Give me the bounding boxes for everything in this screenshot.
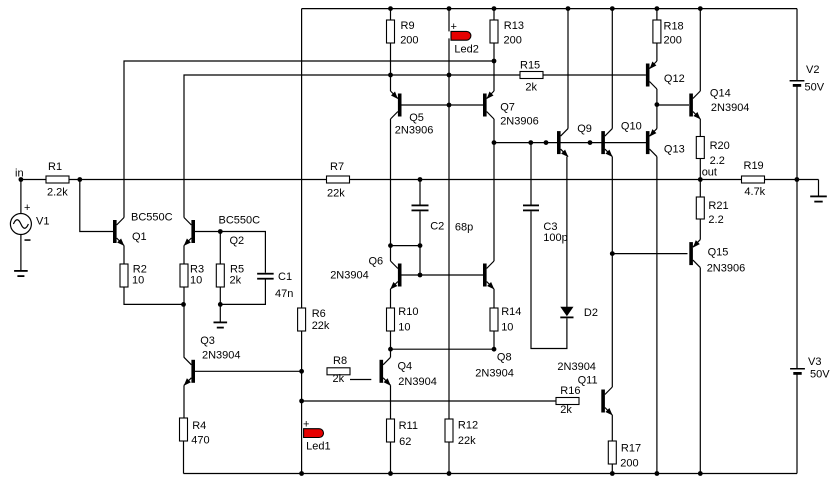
svg-text:+: + xyxy=(451,21,457,33)
resistor R21 2.2 xyxy=(696,197,728,226)
wire Q15 base line xyxy=(612,253,687,255)
wire main in-out line xyxy=(21,179,819,181)
svg-text:R17: R17 xyxy=(621,443,641,455)
resistor R13 200 xyxy=(490,20,524,46)
transistor Q11 2N3904 xyxy=(557,361,612,415)
transistor Q1 BC550C xyxy=(113,212,173,246)
junction bottom rail Led1 xyxy=(299,471,304,476)
svg-text:2k: 2k xyxy=(333,373,345,385)
junction line B Q5 emitter xyxy=(388,73,393,78)
transistor Q12 xyxy=(646,61,685,89)
wire main line to C2 xyxy=(419,180,421,205)
wire in node to V1 xyxy=(20,180,22,214)
svg-text:Q11: Q11 xyxy=(578,375,598,387)
junction Q6/Q8 base C2 xyxy=(418,273,423,278)
svg-text:10: 10 xyxy=(398,321,410,333)
svg-text:R4: R4 xyxy=(192,420,206,432)
wire R21 to Q15 emitter xyxy=(699,219,701,240)
junction line B Led2 xyxy=(447,73,452,78)
transistor Q4 2N3904 xyxy=(380,357,437,388)
transistor Q8 2N3904 xyxy=(475,261,514,380)
transistor Q14 2N3904 xyxy=(689,88,749,120)
wire Q2 emitter to R3 xyxy=(183,246,185,265)
svg-text:V3: V3 xyxy=(808,356,821,368)
svg-text:R6: R6 xyxy=(312,308,326,320)
wire R17 to bottom rail xyxy=(611,464,613,474)
svg-text:R9: R9 xyxy=(401,20,415,32)
svg-text:V1: V1 xyxy=(36,216,49,228)
svg-text:4.7k: 4.7k xyxy=(744,186,765,198)
svg-text:2N3906: 2N3906 xyxy=(395,125,434,137)
wire R20 to out xyxy=(699,159,701,180)
battery V3 50V xyxy=(790,356,830,381)
junction R10 bottom node xyxy=(388,347,393,352)
transistor Q7 2N3906 xyxy=(483,91,539,128)
junction bottom rail R17 xyxy=(610,471,615,476)
wire R10 to Q4 collector xyxy=(390,331,392,357)
wire Q12 collector to Q13 emitter xyxy=(656,89,658,129)
junction top rail Led2 xyxy=(447,6,452,11)
junction Q2 base node xyxy=(218,229,223,234)
wire top rail down through R6 and Led1 xyxy=(301,9,303,474)
svg-text:+: + xyxy=(24,202,30,214)
wire right ground drop xyxy=(818,180,820,196)
svg-text:50V: 50V xyxy=(805,82,825,94)
wire out to R21 xyxy=(699,180,701,198)
wire Q6 base to Q8 base xyxy=(401,274,483,276)
wire Q8 emitter to R14 xyxy=(493,289,495,308)
wire Q9 emitter to D2 anode xyxy=(566,157,568,307)
junction Q9 base pin xyxy=(544,140,549,145)
junction Q12 collector node xyxy=(655,102,660,107)
svg-text:R14: R14 xyxy=(501,306,521,318)
wire line A (Q1 collector to Q7 emitter) xyxy=(124,61,494,218)
junction bottom rail Q15 xyxy=(698,471,703,476)
svg-text:2N3904: 2N3904 xyxy=(330,270,369,282)
capacitor C3 100p xyxy=(523,205,568,244)
battery V2 50V xyxy=(790,64,825,94)
wire Q9 collector to top rail xyxy=(567,9,569,129)
svg-text:Led1: Led1 xyxy=(306,441,330,453)
junction R1/Q1 base xyxy=(77,177,82,182)
wire V3 to bottom rail xyxy=(796,374,798,474)
transistor Q9 xyxy=(557,123,592,157)
svg-text:R16: R16 xyxy=(560,385,580,397)
svg-text:2.2: 2.2 xyxy=(710,155,725,167)
resistor R9 200 xyxy=(387,20,419,46)
svg-text:10: 10 xyxy=(501,321,513,333)
wire R4 to bottom rail xyxy=(183,441,185,474)
wire Q10 collector to top rail xyxy=(611,9,613,129)
resistor R19 4.7k xyxy=(742,160,766,198)
wire Q4 emitter to R11 xyxy=(390,385,392,419)
svg-text:C2: C2 xyxy=(430,221,444,233)
wire R5 top xyxy=(219,232,221,265)
junction C2 bottom node xyxy=(418,243,423,248)
junction bias line C3 xyxy=(528,140,533,145)
svg-text:R21: R21 xyxy=(708,200,728,212)
svg-text:R12: R12 xyxy=(458,419,478,431)
svg-text:C1: C1 xyxy=(278,271,292,283)
junction R2/R3 node xyxy=(181,302,186,307)
svg-text:Q3: Q3 xyxy=(200,335,215,347)
wire Q14 collector to top rail xyxy=(699,9,701,91)
svg-text:Q7: Q7 xyxy=(500,102,515,114)
svg-text:Q8: Q8 xyxy=(497,352,512,364)
svg-text:R1: R1 xyxy=(48,161,62,173)
svg-text:22k: 22k xyxy=(312,320,330,332)
wire top rail to Led2 xyxy=(448,9,450,32)
LED Led1 xyxy=(303,419,331,453)
wire Q7 collector to Q13 base xyxy=(494,142,646,144)
junction R5/C1 ground node xyxy=(218,302,223,307)
wire R8 to Q4 base xyxy=(350,379,371,381)
svg-text:Q6: Q6 xyxy=(369,255,384,267)
junction R6/R16 line node xyxy=(299,399,304,404)
junction line A Q7 emitter xyxy=(492,59,497,64)
svg-text:Q2: Q2 xyxy=(230,235,245,247)
ground right output xyxy=(810,196,827,203)
resistor R17 200 xyxy=(608,441,641,469)
wire R12 to bottom rail xyxy=(448,442,450,474)
ground V1 xyxy=(14,270,28,277)
svg-text:10: 10 xyxy=(132,275,144,287)
resistor R16 2k xyxy=(556,385,580,416)
svg-text:2N3906: 2N3906 xyxy=(707,263,746,275)
ground R5 node xyxy=(214,322,228,329)
wire R10-R14 link xyxy=(391,348,495,350)
resistor R12 22k xyxy=(445,419,478,447)
wire R13 to Q7 emitter xyxy=(493,43,495,91)
junction bottom rail R12 xyxy=(447,471,452,476)
wire Q15 collector to bottom rail xyxy=(699,268,701,474)
svg-text:R19: R19 xyxy=(744,160,764,172)
junction main line C2 xyxy=(418,177,423,182)
svg-text:Q9: Q9 xyxy=(577,123,592,135)
wire Q2 base to R5/C1 xyxy=(195,232,265,273)
svg-text:Q13: Q13 xyxy=(664,144,685,156)
wire C3 top xyxy=(530,143,532,205)
junction bottom rail R11 xyxy=(388,471,393,476)
capacitor C2 68p xyxy=(412,205,474,234)
resistor R11 62 xyxy=(387,419,418,448)
junction Q6 collector node xyxy=(388,243,393,248)
wire bottom supply rail xyxy=(184,473,798,475)
wire R14 to R10 link node xyxy=(493,331,495,349)
junction bias line Q7 collector xyxy=(492,140,497,145)
svg-text:100p: 100p xyxy=(543,232,567,244)
junction bottom rail Q13 xyxy=(655,471,660,476)
svg-text:Q4: Q4 xyxy=(398,360,413,372)
wire Q10 emitter down to Q11 collector xyxy=(611,157,613,387)
wire R9 top stub xyxy=(390,9,392,20)
wire C1 bottom to R5 node xyxy=(220,279,265,304)
svg-text:R11: R11 xyxy=(399,420,418,432)
wire Q14 emitter to R20 xyxy=(699,119,701,137)
junction top rail R13 xyxy=(492,6,497,11)
junction Q10 base pin xyxy=(588,140,593,145)
svg-text:2k: 2k xyxy=(230,275,242,287)
svg-text:200: 200 xyxy=(664,35,682,47)
svg-text:22k: 22k xyxy=(458,435,476,447)
svg-text:68p: 68p xyxy=(455,222,473,234)
AC source V1 xyxy=(10,202,49,241)
svg-text:Q5: Q5 xyxy=(409,112,424,124)
svg-text:V2: V2 xyxy=(806,64,819,76)
transistor Q10 xyxy=(601,121,641,158)
wire R9 to Q5 emitter xyxy=(390,43,392,91)
svg-text:2N3904: 2N3904 xyxy=(475,368,514,380)
svg-text:10: 10 xyxy=(190,275,202,287)
svg-text:Q12: Q12 xyxy=(664,73,685,85)
resistor R2 10 xyxy=(120,263,147,287)
transistor Q15 2N3906 xyxy=(689,240,745,275)
junction main line V-rail xyxy=(795,177,800,182)
resistor R1 2.2k xyxy=(46,161,69,199)
junction top rail Q9 xyxy=(566,6,571,11)
svg-text:2k: 2k xyxy=(560,404,572,416)
resistor R8 2k xyxy=(327,355,350,385)
svg-text:Q1: Q1 xyxy=(132,231,147,243)
junction top rail R18 xyxy=(655,6,660,11)
svg-text:50V: 50V xyxy=(810,369,830,381)
node label out xyxy=(702,167,717,179)
wire V1 to ground xyxy=(20,235,22,271)
transistor Q6 2N3904 xyxy=(330,255,401,289)
capacitor C1 47n xyxy=(257,271,293,300)
svg-text:R20: R20 xyxy=(710,140,730,152)
svg-text:2.2k: 2.2k xyxy=(47,187,68,199)
wire C2 to Q6/Q8 node xyxy=(419,211,421,275)
svg-text:62: 62 xyxy=(399,436,411,448)
junction top rail Q10 xyxy=(610,6,615,11)
svg-text:in: in xyxy=(15,168,24,180)
wire Q6 emitter to R10 xyxy=(390,289,392,308)
resistor R6 22k xyxy=(298,308,330,332)
svg-text:470: 470 xyxy=(191,435,209,447)
junction Q5/Q7 base node xyxy=(447,103,452,108)
svg-text:Led2: Led2 xyxy=(454,43,478,55)
wire R5 bottom to ground xyxy=(219,287,221,322)
svg-text:BC550C: BC550C xyxy=(131,212,173,224)
resistor R7 22k xyxy=(327,161,350,200)
resistor R14 10 xyxy=(490,306,521,333)
junction Q3 base R6 node xyxy=(299,369,304,374)
svg-text:2N3904: 2N3904 xyxy=(202,350,241,362)
junction R14 bottom node xyxy=(492,347,497,352)
svg-text:R13: R13 xyxy=(504,20,524,32)
junction Q15 base node xyxy=(610,251,615,256)
wire R1 to Q1 base xyxy=(80,180,113,232)
svg-text:R3: R3 xyxy=(190,263,204,275)
diode D2 xyxy=(560,307,598,319)
wire Q3 base to R8 node xyxy=(195,370,302,372)
svg-text:BC550C: BC550C xyxy=(219,215,261,227)
wire R18 top stub xyxy=(656,9,658,20)
node label in xyxy=(15,168,24,180)
junction top rail Q14 xyxy=(698,6,703,11)
wire Q3 emitter to R4 xyxy=(183,385,185,418)
svg-text:Q15: Q15 xyxy=(708,247,729,259)
wire Q11 emitter to R17 xyxy=(611,415,613,441)
transistor Q2 BC550C xyxy=(184,215,260,248)
resistor R20 2.2 xyxy=(696,137,729,168)
junction in node xyxy=(19,177,24,182)
wire Q5 collector down to Q6 collector xyxy=(390,119,392,261)
svg-text:2N3904: 2N3904 xyxy=(711,102,750,114)
transistor Q13 xyxy=(646,129,685,157)
wire V2 to V3 xyxy=(796,86,798,369)
svg-text:2.2: 2.2 xyxy=(708,214,723,226)
svg-text:R7: R7 xyxy=(330,161,344,173)
junction top rail R9 xyxy=(388,6,393,11)
svg-text:R5: R5 xyxy=(230,263,244,275)
wire Q12/Q13 node to Q14 base xyxy=(657,104,689,106)
svg-text:D2: D2 xyxy=(584,307,598,319)
wire V2 top xyxy=(796,9,798,80)
svg-text:+: + xyxy=(303,419,309,431)
wire Led2 down to R12 xyxy=(448,38,450,419)
svg-text:R15: R15 xyxy=(520,60,540,72)
svg-text:2N3904: 2N3904 xyxy=(557,361,596,373)
svg-text:Q10: Q10 xyxy=(621,121,642,133)
resistor R5 2k xyxy=(216,263,244,287)
resistor R15 2k xyxy=(520,60,543,94)
svg-text:200: 200 xyxy=(400,34,418,46)
wire line B (Q2 collector to Q12 base) xyxy=(184,75,646,218)
svg-text:200: 200 xyxy=(504,34,522,46)
wire Q5 base to Q7 base xyxy=(401,104,483,106)
LED Led2 xyxy=(451,21,479,55)
junction out node xyxy=(698,177,703,182)
wire R13 top stub xyxy=(493,9,495,20)
wire R11 to bottom rail xyxy=(390,442,392,474)
svg-text:47n: 47n xyxy=(275,288,293,300)
svg-text:out: out xyxy=(702,167,717,179)
svg-text:R8: R8 xyxy=(333,355,347,367)
wire Q13 collector to bottom rail xyxy=(656,157,658,474)
wire top supply rail xyxy=(302,8,797,10)
svg-text:R2: R2 xyxy=(133,263,147,275)
svg-text:2N3906: 2N3906 xyxy=(500,116,539,128)
svg-text:R18: R18 xyxy=(664,21,684,33)
resistor R4 470 xyxy=(180,418,210,447)
wire R3 to Q3 collector xyxy=(183,287,185,358)
svg-text:200: 200 xyxy=(620,457,638,469)
svg-text:2k: 2k xyxy=(525,82,537,94)
resistor R10 10 xyxy=(387,306,419,333)
wire Q7 collector down to Q8 collector xyxy=(493,119,495,261)
wire Q1 emitter to R2 xyxy=(123,246,125,265)
svg-text:Q14: Q14 xyxy=(710,88,731,100)
wire R2 to R3 node xyxy=(124,287,184,304)
svg-text:2N3904: 2N3904 xyxy=(398,376,437,388)
svg-text:R10: R10 xyxy=(398,306,418,318)
wire Q3 node to R16/Q11 base xyxy=(302,400,556,402)
transistor Q5 2N3906 xyxy=(391,91,434,137)
wire Q6 collector link xyxy=(391,245,421,247)
transistor Q3 2N3904 xyxy=(184,335,241,386)
wire C3 bottom to D2 cathode xyxy=(531,211,567,348)
resistor R18 200 xyxy=(653,20,684,47)
resistor R3 10 xyxy=(180,263,204,287)
svg-text:22k: 22k xyxy=(327,188,345,200)
wire R18 to Q12 emitter xyxy=(656,43,658,61)
